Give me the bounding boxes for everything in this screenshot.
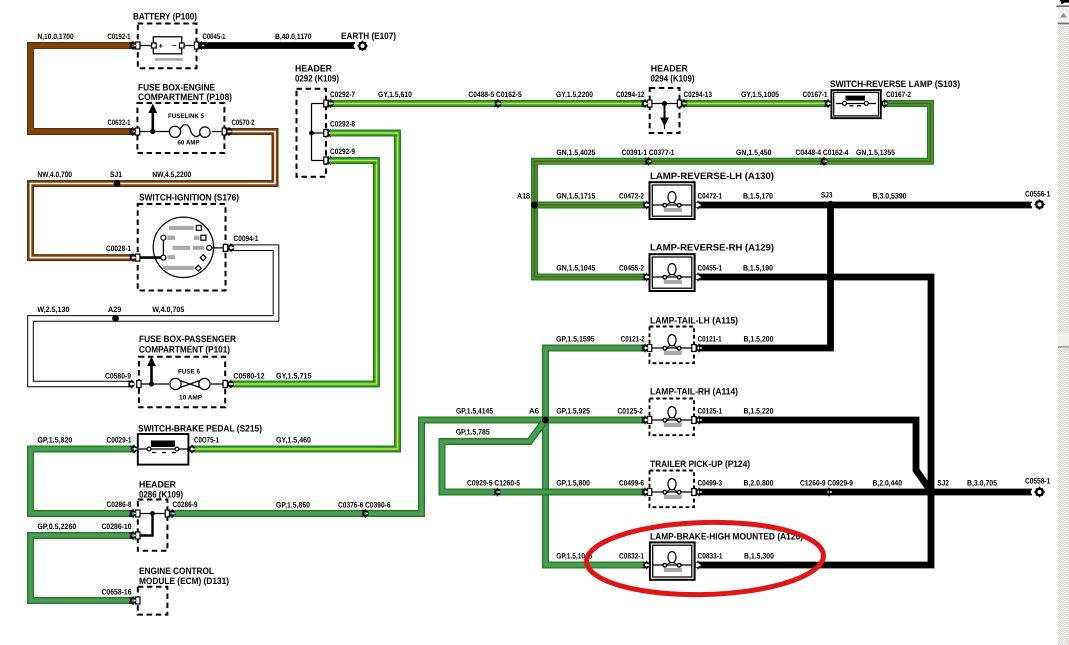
scrollbar thumb [1058,334,1069,348]
svg-text:C0286-10: C0286-10 [102,522,133,531]
svg-text:C0488-5 C0162-5: C0488-5 C0162-5 [468,90,522,99]
svg-text:C0167-1: C0167-1 [803,90,829,99]
svg-text:W,4.0,705: W,4.0,705 [152,305,185,314]
svg-text:C0632-1: C0632-1 [108,118,131,127]
svg-text:C0658-16: C0658-16 [102,587,133,596]
svg-text:C0448-4 C0162-4: C0448-4 C0162-4 [796,148,850,157]
svg-text:SWITCH-BRAKE PEDAL (S215): SWITCH-BRAKE PEDAL (S215) [138,424,262,434]
svg-text:NW,4.0,700: NW,4.0,700 [37,170,72,179]
svg-text:C0472-2: C0472-2 [619,192,645,201]
svg-text:EARTH (E107): EARTH (E107) [341,31,396,41]
svg-text:LAMP-BRAKE-HIGH MOUNTED (A126): LAMP-BRAKE-HIGH MOUNTED (A126) [650,532,803,542]
svg-text:HEADER: HEADER [139,480,176,490]
lamp reverse LH A130 [643,182,701,219]
wire N,10.0,1700 battery to fuse box engine [31,46,138,132]
svg-text:−: − [172,41,177,50]
svg-text:C0455-1: C0455-1 [698,264,723,273]
connector C0556-1 ring [1031,199,1045,210]
svg-text:C0376-6 C0390-6: C0376-6 C0390-6 [338,501,391,510]
scrollbar divider line [1057,5,1069,7]
svg-text:GN,1.5,1045: GN,1.5,1045 [556,264,596,273]
wire B,2.0,800 / B,2.0,440 / B,3.0,705 trailer pick-up to C0558-1 [699,489,1032,496]
earth E107 symbol [354,41,368,52]
svg-text:LAMP-REVERSE-LH (A130): LAMP-REVERSE-LH (A130) [650,171,774,181]
red highlight ellipse around lamp brake high mounted [586,519,825,597]
svg-text:GN,1.5,450: GN,1.5,450 [736,148,772,157]
header 0294 K109 [641,88,686,133]
svg-text:C0125-2: C0125-2 [618,407,644,416]
junction SJ1 [114,180,121,187]
battery P100 [129,24,204,69]
svg-text:C0556-1: C0556-1 [1025,190,1051,199]
svg-text:C0O75-1: C0O75-1 [194,436,220,445]
wire GY stub C0292-8 to corner [330,130,398,137]
svg-text:+: + [159,42,164,51]
svg-text:GP,1.5,785: GP,1.5,785 [456,428,491,437]
svg-text:FUSELINK 5: FUSELINK 5 [168,113,204,120]
svg-text:N,10.0,1700: N,10.0,1700 [37,32,74,41]
svg-text:FUSE BOX-PASSENGER: FUSE BOX-PASSENGER [139,334,236,344]
svg-text:C0294-13: C0294-13 [684,90,713,99]
svg-text:GY,1.5,610: GY,1.5,610 [378,90,413,99]
svg-text:GP,1.5,1595: GP,1.5,1595 [556,335,595,344]
svg-text:SJ1: SJ1 [110,170,123,179]
svg-text:COMPARTMENT (P101): COMPARTMENT (P101) [139,345,230,355]
svg-text:FUSE BOX-ENGINE: FUSE BOX-ENGINE [138,83,215,93]
wire GY,1.5,460 brake pedal switch to header C0292-8 [193,133,398,449]
svg-text:NW,4.5,2200: NW,4.5,2200 [152,170,192,179]
inline connector C0448-4 C0162-4 [820,157,826,165]
svg-text:C0472-1: C0472-1 [698,192,723,201]
svg-text:C0580-9: C0580-9 [105,372,132,381]
wire GN reverse lamp switch to reverse lamps via A18 [535,104,931,278]
svg-text:HEADER: HEADER [295,64,332,74]
wire GP,1.5,1595 tail lamp LH feed down to brake lamp [546,348,646,565]
wire GY stub C0292-9 to corner [330,157,377,164]
svg-text:C0121-1: C0121-1 [698,335,723,344]
svg-text:ENGINE CONTROL: ENGINE CONTROL [139,566,214,576]
svg-text:C0558-1: C0558-1 [1025,477,1051,486]
lamp reverse RH A129 [643,254,701,291]
wire B,1.5,190 lamp reverse RH to SJ2 to brake lamp [699,277,931,565]
svg-text:C0167-2: C0167-2 [886,90,912,99]
svg-text:C0832-1: C0832-1 [619,552,645,561]
svg-text:GN,1.5,1355: GN,1.5,1355 [856,148,896,157]
svg-text:C0455-2: C0455-2 [619,264,645,273]
svg-text:GN,1.5,4025: GN,1.5,4025 [556,148,596,157]
wire GY,1.5,610 / GY,1.5,2200 header 0292 to header 0294 [330,100,644,107]
scrollbar track [1058,25,1069,645]
svg-text:C0499-3: C0499-3 [698,479,723,488]
scrollbar up button [1058,7,1069,23]
switch-brake pedal S215 [130,434,194,465]
svg-text:W,2.5,130: W,2.5,130 [37,305,70,314]
wire GP,1.5,820 brake pedal switch to header C0286-8 [31,449,135,514]
lamp tail RH A114 [641,399,701,436]
svg-text:10 AMP: 10 AMP [179,395,203,402]
svg-text:LAMP-REVERSE-RH (A129): LAMP-REVERSE-RH (A129) [650,243,774,253]
svg-text:C0028-1: C0028-1 [106,244,132,253]
svg-text:B,3.0,5390: B,3.0,5390 [873,192,908,201]
connector C0558-1 ring [1031,487,1045,498]
svg-text:SJ2: SJ2 [937,479,949,488]
svg-text:B,1.5,220: B,1.5,220 [744,407,775,416]
svg-text:SWITCH-IGNITION (S176): SWITCH-IGNITION (S176) [139,193,239,203]
wire NW fuse box engine to ignition switch via SJ1 [31,132,276,258]
svg-text:B,2.0,800: B,2.0,800 [744,479,775,488]
wire B,40.0,1170 battery to earth [199,42,355,49]
engine control module ECM D131 [129,587,167,615]
svg-text:C0286-8: C0286-8 [107,500,133,509]
svg-text:C0499-6: C0499-6 [619,479,645,488]
svg-text:MODULE (ECM) (D131): MODULE (ECM) (D131) [139,576,229,586]
junction A6 [542,417,549,424]
svg-text:C0292-9: C0292-9 [330,147,356,156]
svg-text:C0125-1: C0125-1 [698,407,723,416]
svg-text:A6: A6 [529,407,540,416]
header 0286 K109 [129,500,174,551]
svg-text:C0292-7: C0292-7 [330,90,355,99]
svg-text:GY,1.5,460: GY,1.5,460 [276,436,312,445]
lamp brake high mounted A126 [643,542,701,579]
switch-reverse lamp S103 [824,90,887,118]
svg-text:C0580-12: C0580-12 [234,372,266,381]
inline connector C1260-9 C0929-9 [825,488,831,496]
fuse box passenger compartment P101 [128,357,233,408]
header 0292 K109 [297,89,334,177]
switch-ignition S176 [129,204,233,291]
inline connector C0376-6 C0390-6 [362,509,368,517]
svg-text:BATTERY (P100): BATTERY (P100) [133,12,197,22]
svg-text:LAMP-TAIL-LH (A115): LAMP-TAIL-LH (A115) [650,316,738,326]
svg-text:B,40.0,1170: B,40.0,1170 [275,32,312,41]
svg-text:C0045-1: C0045-1 [203,32,226,41]
wire GP,1.5,4145 header 0286 up to A6 [171,420,546,514]
svg-text:A18: A18 [517,192,531,201]
svg-text:B,1.5,190: B,1.5,190 [743,264,774,273]
junction SJ3 [827,201,834,208]
svg-text:GY,1.5,715: GY,1.5,715 [276,372,312,381]
svg-text:C0929-5 C1260-5: C0929-5 C1260-5 [467,479,521,488]
wire GP,1.5,785 A6 to trailer pick-up [442,423,645,493]
junction A29 [112,315,119,322]
fuse box engine compartment P108 [129,103,232,153]
svg-text:B,1.5,170: B,1.5,170 [743,192,774,201]
junction SJ2 [928,489,935,496]
svg-text:TRAILER PICK-UP (P124): TRAILER PICK-UP (P124) [650,459,750,469]
svg-text:A29: A29 [108,305,122,314]
svg-text:COMPARTMENT (P108): COMPARTMENT (P108) [138,92,232,102]
wire GP,0.5,2260 header C0286-10 to ECM [31,536,135,601]
svg-text:C1260-9 C0929-9: C1260-9 C0929-9 [800,479,854,488]
svg-text:B,1.5,300: B,1.5,300 [744,552,775,561]
svg-text:60 AMP: 60 AMP [178,140,201,147]
svg-text:C0292-8: C0292-8 [330,120,356,129]
junction A18 [531,202,538,209]
svg-text:C0121-2: C0121-2 [621,335,646,344]
svg-text:GY,1.5,2200: GY,1.5,2200 [556,90,594,99]
svg-text:C0391-1 C0377-1: C0391-1 C0377-1 [622,148,676,157]
svg-text:SJ3: SJ3 [821,191,833,200]
svg-text:B,1.5,200: B,1.5,200 [744,335,775,344]
inline connector C0391-1 C0377-1 [645,157,651,165]
wire GP,1.5,925 A6 to tail lamp RH [546,417,646,424]
svg-text:GP,1.5,800: GP,1.5,800 [556,479,590,488]
svg-text:GP,1.5,860: GP,1.5,860 [276,501,311,510]
svg-text:C0833-1: C0833-1 [698,552,724,561]
svg-text:GN,1.5,1715: GN,1.5,1715 [556,192,596,201]
scrollbar top toolbar fragment [1060,0,1069,4]
svg-text:SWITCH-REVERSE LAMP (S103): SWITCH-REVERSE LAMP (S103) [830,79,960,89]
svg-text:C0570-2: C0570-2 [232,118,255,127]
svg-text:0286 (K109): 0286 (K109) [139,490,183,500]
svg-text:GY,1.5,1005: GY,1.5,1005 [741,90,780,99]
wire GY,1.5,715 fuse box passenger to header C0292-9 [230,161,377,385]
trailer pick-up P124 [641,471,701,508]
svg-text:0294 (K109): 0294 (K109) [651,74,695,84]
svg-text:FUSE 6: FUSE 6 [178,369,200,376]
inline connector C0488-5 C0162-5 [494,99,500,107]
svg-text:C0286-9: C0286-9 [173,500,199,509]
svg-text:LAMP-TAIL-RH (A114): LAMP-TAIL-RH (A114) [650,387,738,397]
svg-text:GP,1.5,4145: GP,1.5,4145 [456,407,494,416]
svg-text:C0294-12: C0294-12 [616,90,645,99]
svg-text:GP,0.5,2260: GP,0.5,2260 [37,522,77,531]
svg-text:0292 (K109): 0292 (K109) [295,74,339,84]
svg-text:C0094-1: C0094-1 [234,234,260,243]
wire GN,1.5,1715 A18 to lamp reverse LH [535,202,646,209]
svg-text:B,2.0,440: B,2.0,440 [873,479,903,488]
svg-text:C0029-1: C0029-1 [107,436,133,445]
wire black SJ3 drop to lamp tail LH [699,205,831,348]
wire W ignition switch to fuse box passenger via A29 [31,248,277,384]
svg-text:GP,1.5,925: GP,1.5,925 [556,407,590,416]
svg-text:B,3.0,705: B,3.0,705 [967,479,998,488]
svg-text:GP,1.5,820: GP,1.5,820 [37,436,73,445]
svg-text:C0192-1: C0192-1 [108,32,131,41]
wire B,1.5,220 lamp tail RH to SJ2 [699,420,929,489]
wire B,1.5,170 / B,3.0,5390 lamp reverse LH to C0556-1 [699,202,1032,209]
lamp tail LH A115 [641,327,701,364]
svg-text:HEADER: HEADER [651,64,688,74]
wire GY,1.5,1005 header 0294 to reverse lamp switch [683,100,828,107]
inline connector C0929-5 C1260-5 [494,488,500,496]
